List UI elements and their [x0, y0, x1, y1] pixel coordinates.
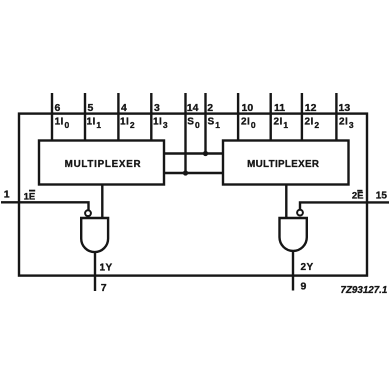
wire output 1Y pin 7 — [94, 252, 96, 291]
svg-text:1I2: 1I2 — [120, 117, 135, 131]
wire pin 6 (1I0) — [51, 93, 53, 141]
svg-text:1: 1 — [4, 189, 10, 201]
inverter bubble gate 2 — [297, 210, 303, 216]
wire select S0 (lower) — [164, 172, 223, 174]
svg-text:1I0: 1I0 — [55, 117, 70, 131]
wire pin 13 (2I3) — [335, 93, 337, 141]
svg-text:10: 10 — [242, 102, 254, 114]
overbar 2E — [357, 190, 362, 192]
wire pin 11 (2I1) — [270, 93, 272, 141]
wire pin 2 (S1) — [204, 93, 206, 154]
svg-text:12: 12 — [305, 102, 317, 114]
svg-text:9: 9 — [301, 281, 307, 293]
junction dot S0 — [183, 170, 188, 175]
svg-text:MULTIPLEXER: MULTIPLEXER — [247, 159, 319, 170]
svg-text:3: 3 — [154, 102, 160, 114]
svg-text:1Y: 1Y — [100, 262, 113, 273]
svg-text:2I2: 2I2 — [305, 117, 320, 131]
wire mux1 output to gate — [101, 185, 103, 219]
junction dot S1 — [203, 151, 208, 156]
svg-text:13: 13 — [339, 102, 351, 114]
svg-text:1I3: 1I3 — [153, 117, 168, 131]
wire select S1 (upper) — [164, 152, 223, 154]
wire pin 15 enable 2E — [300, 202, 389, 209]
wire pin 5 (1I1) — [84, 93, 86, 141]
svg-text:2Y: 2Y — [301, 262, 314, 273]
wire pin 1 enable 1E — [1, 202, 89, 210]
svg-text:5: 5 — [88, 102, 94, 114]
svg-text:2I3: 2I3 — [339, 117, 354, 131]
wire pin 3 (1I3) — [150, 93, 152, 141]
svg-text:1E: 1E — [24, 192, 36, 203]
svg-text:S0: S0 — [187, 117, 200, 131]
wire output 2Y pin 9 — [292, 251, 294, 291]
svg-text:S1: S1 — [208, 117, 221, 131]
svg-text:1I1: 1I1 — [87, 117, 102, 131]
svg-text:6: 6 — [55, 102, 61, 114]
wire mux2 output to gate — [285, 185, 287, 219]
inverter bubble gate 1 — [85, 210, 91, 216]
svg-text:15: 15 — [376, 191, 388, 202]
svg-text:4: 4 — [121, 102, 127, 114]
AND gate G2 — [280, 218, 307, 251]
multiplexer block U1a — [39, 141, 164, 185]
wire pin 14 (S0) — [184, 93, 186, 173]
IC outline — [19, 114, 367, 276]
overbar 1E — [29, 190, 35, 192]
svg-text:2I1: 2I1 — [274, 117, 289, 131]
wire pin 12 (2I2) — [301, 93, 303, 141]
svg-text:14: 14 — [187, 102, 199, 114]
svg-text:MULTIPLEXER: MULTIPLEXER — [65, 159, 142, 170]
svg-text:2: 2 — [207, 102, 213, 114]
svg-text:11: 11 — [274, 102, 285, 114]
svg-text:7Z93127.1: 7Z93127.1 — [341, 285, 388, 296]
svg-text:2E: 2E — [352, 191, 364, 202]
AND gate G1 — [81, 218, 108, 252]
svg-text:7: 7 — [101, 282, 107, 294]
wire pin 4 (1I2) — [117, 93, 119, 141]
wire pin 10 (2I0) — [237, 93, 239, 141]
multiplexer block U1b — [223, 141, 349, 185]
svg-text:2I0: 2I0 — [241, 117, 256, 131]
